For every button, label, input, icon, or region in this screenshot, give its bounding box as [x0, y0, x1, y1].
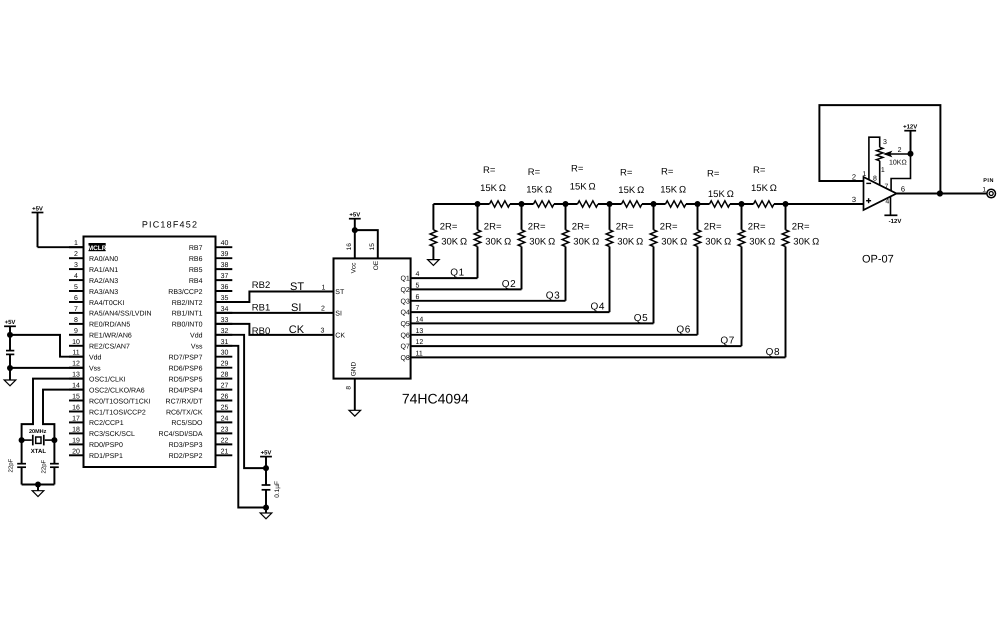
svg-text:RC6/TX/CK: RC6/TX/CK [166, 408, 203, 416]
svg-text:CK: CK [289, 324, 305, 336]
svg-text:30K Ω: 30K Ω [573, 237, 599, 248]
svg-text:RA1/AN1: RA1/AN1 [89, 266, 118, 274]
wire feedback (output to pin2) [819, 105, 940, 193]
svg-text:1: 1 [982, 186, 986, 193]
svg-text:15K Ω: 15K Ω [570, 182, 596, 193]
svg-text:Vss: Vss [89, 366, 101, 373]
svg-text:RB1: RB1 [252, 303, 270, 314]
wire +5V to U1 pin16 Vcc [354, 230, 356, 258]
U2 pin 34 stub and label [216, 312, 233, 314]
power -12V [884, 214, 897, 216]
svg-text:2: 2 [74, 251, 78, 258]
svg-text:2R=: 2R= [704, 222, 722, 233]
svg-text:7: 7 [416, 305, 420, 312]
svg-text:20: 20 [72, 448, 80, 455]
wire U2 pin34 RB1 to U1 SI [216, 312, 334, 314]
svg-text:8: 8 [873, 175, 877, 182]
ground (Vss) [4, 380, 16, 386]
svg-text:18: 18 [72, 426, 80, 433]
svg-text:SI: SI [291, 302, 301, 314]
svg-text:RD1/PSP1: RD1/PSP1 [89, 452, 123, 460]
svg-text:+5V: +5V [261, 449, 272, 456]
U2 pin 29 stub and label [216, 367, 233, 369]
svg-text:26: 26 [221, 394, 229, 401]
wire U2 pin32 Vdd to +5V [216, 335, 267, 468]
svg-text:2: 2 [852, 172, 856, 181]
svg-text:12: 12 [72, 361, 80, 368]
svg-text:2R=: 2R= [792, 222, 810, 233]
svg-text:37: 37 [221, 273, 229, 280]
wire VR1 pin3 to U3 pin1 [869, 137, 880, 179]
svg-text:RB2: RB2 [252, 280, 270, 291]
svg-text:RA2/AN3: RA2/AN3 [89, 277, 118, 285]
svg-text:RB0/INT0: RB0/INT0 [172, 321, 203, 329]
svg-text:SI: SI [335, 311, 342, 318]
IC U2 PIC18F452 body [84, 237, 216, 468]
svg-text:Q5: Q5 [634, 313, 649, 324]
wire +5V to U2 pin1 MCLR [38, 246, 84, 248]
svg-text:19: 19 [72, 437, 80, 444]
junction node Vdd/C4 [263, 465, 269, 471]
ground (C4) [260, 513, 272, 519]
U2 pin 28 stub and label [216, 378, 233, 380]
svg-text:29: 29 [221, 361, 229, 368]
svg-text:7: 7 [74, 306, 78, 313]
resistor R5 15K (series) [666, 201, 687, 207]
svg-text:RE1/WR/AN6: RE1/WR/AN6 [89, 332, 132, 340]
svg-text:2R=: 2R= [440, 222, 458, 233]
svg-text:Q8: Q8 [400, 355, 409, 362]
wire node5 to 2R [653, 204, 655, 230]
junction node ladder 3 [563, 201, 569, 207]
svg-text:Vdd: Vdd [190, 332, 203, 340]
svg-text:31: 31 [221, 339, 229, 346]
svg-text:RD5/PSP5: RD5/PSP5 [169, 375, 203, 383]
svg-text:15: 15 [369, 243, 376, 251]
potentiometer VR1 10K [877, 147, 883, 161]
svg-text:Q7: Q7 [720, 336, 735, 347]
resistor R4 15K (series) [622, 201, 643, 207]
svg-text:30K Ω: 30K Ω [661, 237, 687, 248]
wire to ground [37, 485, 39, 491]
svg-text:-12V: -12V [889, 218, 902, 225]
svg-text:RC7/RX/DT: RC7/RX/DT [166, 397, 204, 405]
svg-text:RD6/PSP6: RD6/PSP6 [169, 365, 203, 373]
svg-text:RD4/PSP4: RD4/PSP4 [169, 386, 203, 394]
wire U1 Q8 to ladder leg [411, 356, 786, 358]
wire 2R to Q7 line [741, 247, 743, 347]
svg-text:0.1µF: 0.1µF [274, 481, 281, 498]
resistor R3 15K (series) [578, 201, 599, 207]
junction node output/feedback [937, 190, 943, 196]
connector PIN (output) [987, 189, 996, 198]
svg-text:13: 13 [416, 328, 424, 335]
wire node3 to 2R [565, 204, 567, 230]
wire U1 Q4 to ladder leg [411, 311, 610, 313]
U2 pin 38 stub and label [216, 268, 233, 270]
U2 pin 35 stub and label [216, 301, 233, 303]
svg-text:ST: ST [290, 281, 304, 293]
U2 pin 26 stub and label [216, 400, 233, 402]
svg-text:21: 21 [221, 448, 229, 455]
svg-text:2R=: 2R= [572, 222, 590, 233]
svg-text:9: 9 [74, 328, 78, 335]
svg-text:11: 11 [72, 350, 79, 357]
svg-text:RD2/PSP2: RD2/PSP2 [169, 452, 203, 460]
wire node2 to 2R [521, 204, 523, 230]
resistor R2R-3 30K [562, 230, 569, 247]
U2 pin 30 stub and label [216, 356, 233, 358]
svg-text:Q3: Q3 [400, 298, 409, 305]
resistor R2R-8 30K [782, 230, 789, 247]
power +5V (U1 Vcc/OE) [349, 218, 361, 220]
junction node ladder 8 [783, 201, 789, 207]
op-amp U3 OP-07 triangle [864, 177, 897, 210]
svg-text:28: 28 [221, 372, 229, 379]
junction node ladder 4 [607, 201, 613, 207]
svg-text:33: 33 [221, 317, 229, 324]
svg-text:Q7: Q7 [400, 344, 409, 351]
svg-text:R=: R= [528, 167, 541, 178]
svg-text:ST: ST [335, 289, 345, 296]
resistor R2R-5 30K [650, 230, 657, 247]
resistor R2R-2 30K [518, 230, 525, 247]
svg-text:12: 12 [416, 339, 424, 346]
svg-text:3: 3 [883, 139, 887, 146]
svg-text:RC3/SCK/SCL: RC3/SCK/SCL [89, 430, 135, 438]
svg-text:2R=: 2R= [748, 222, 766, 233]
svg-text:8: 8 [346, 386, 353, 390]
wire ladder rail segment 7 [730, 203, 754, 205]
U2 pin 36 stub and label [216, 290, 233, 292]
svg-text:15K Ω: 15K Ω [751, 183, 777, 194]
U2 pin 11 stub and label [69, 356, 84, 358]
svg-text:22pF: 22pF [40, 459, 47, 473]
U3 non-inverting input mark [866, 200, 871, 202]
svg-text:MCLR: MCLR [88, 245, 107, 252]
svg-text:RB2/INT2: RB2/INT2 [172, 299, 203, 307]
junction node wiper/+12V [908, 151, 914, 157]
U2 pin 19 stub and label [69, 443, 84, 445]
svg-text:Q6: Q6 [676, 324, 691, 335]
svg-text:RC1/T1OSI/CCP2: RC1/T1OSI/CCP2 [89, 408, 146, 416]
svg-text:36: 36 [221, 284, 229, 291]
svg-text:RA5/AN4/SS/LVDIN: RA5/AN4/SS/LVDIN [89, 310, 152, 318]
svg-text:OSC2/CLKO/RA6: OSC2/CLKO/RA6 [89, 386, 145, 394]
junction node U1 Vcc [352, 227, 358, 233]
junction node XTAL left [19, 437, 25, 443]
svg-text:38: 38 [221, 262, 229, 269]
wire node1 to 2R [477, 204, 479, 230]
svg-text:30K Ω: 30K Ω [749, 237, 775, 248]
crystal X1 20MHz [22, 439, 32, 441]
svg-text:20MHz: 20MHz [29, 429, 47, 435]
wire U2 pin35 RB2 to U1 ST [216, 292, 334, 303]
svg-text:23: 23 [221, 426, 229, 433]
resistor R2R-1 30K [474, 230, 481, 247]
svg-text:R=: R= [620, 168, 633, 179]
capacitor C3 22pF [50, 463, 59, 465]
U2 pin 4 stub and label [69, 279, 84, 281]
svg-text:1: 1 [862, 171, 866, 178]
wire R8 to ground [432, 247, 434, 260]
junction node ladder 6 [695, 201, 701, 207]
junction node XTAL right [51, 437, 57, 443]
svg-text:5: 5 [416, 282, 420, 289]
svg-text:4: 4 [74, 273, 78, 280]
svg-text:14: 14 [416, 316, 424, 323]
svg-text:RA0/AN0: RA0/AN0 [89, 255, 118, 263]
wire 2R to Q4 line [609, 247, 611, 313]
wire U1 Q1 to ladder leg [411, 277, 478, 279]
junction node XTAL gnd [35, 482, 41, 488]
svg-text:40: 40 [221, 240, 229, 247]
U2 pin 5 stub and label [69, 290, 84, 292]
svg-text:RC2/CCP1: RC2/CCP1 [89, 419, 124, 427]
wire U1 Q6 to ladder leg [411, 334, 698, 336]
U2 pin 12 stub and label [69, 367, 84, 369]
svg-text:5: 5 [74, 284, 78, 291]
svg-text:CK: CK [335, 333, 345, 340]
junction node C4 gnd [263, 505, 269, 511]
svg-text:3: 3 [321, 328, 325, 335]
junction node ladder 5 [651, 201, 657, 207]
U2 pin 2 stub and label [69, 257, 84, 259]
svg-text:13: 13 [72, 372, 80, 379]
wire U1 Q2 to ladder leg [411, 288, 522, 290]
svg-text:11: 11 [416, 350, 423, 357]
svg-text:2: 2 [321, 306, 325, 313]
U2 pin 32 stub and label [216, 334, 233, 336]
svg-text:RB5: RB5 [189, 267, 203, 274]
wire ladder rail segment 6 [686, 203, 710, 205]
wire 2R to Q5 line [653, 247, 655, 324]
svg-text:15K Ω: 15K Ω [526, 185, 552, 196]
wire node6 to 2R [697, 204, 699, 230]
wire U2 pin31 Vss to ground [216, 346, 267, 508]
svg-text:34: 34 [221, 306, 229, 313]
svg-text:OE: OE [373, 260, 380, 270]
svg-text:R=: R= [483, 165, 496, 176]
svg-text:30K Ω: 30K Ω [617, 237, 643, 248]
svg-text:7: 7 [885, 184, 889, 191]
U2 pin 23 stub and label [216, 432, 233, 434]
svg-text:Q8: Q8 [766, 347, 781, 358]
U2 pin 1 label MCLR (inverted) [89, 243, 106, 251]
capacitor C4 0.1uF [262, 484, 271, 486]
wire ladder rail segment 4 [598, 203, 622, 205]
wire +5V to U1 pin15 OE [355, 230, 378, 258]
resistor R1 15K (series) [490, 201, 510, 207]
svg-text:22pF: 22pF [7, 458, 14, 472]
power +5V (MCLR pullup) [32, 212, 44, 214]
junction node ladder 2 [519, 201, 525, 207]
U2 pin 40 stub and label [216, 246, 233, 248]
svg-text:25: 25 [221, 405, 229, 412]
svg-text:1: 1 [881, 167, 885, 174]
wire node7 to 2R [741, 204, 743, 230]
U2 pin 37 stub and label [216, 279, 233, 281]
svg-text:+5V: +5V [349, 212, 360, 219]
wire U1 Q7 to ladder leg [411, 345, 742, 347]
wire U2 pin14 OSC2 to crystal [43, 390, 84, 441]
svg-text:Q6: Q6 [400, 332, 409, 339]
svg-text:8: 8 [74, 317, 78, 324]
svg-text:2: 2 [898, 147, 902, 154]
U2 pin 24 stub and label [216, 421, 233, 423]
junction node +5V/Vdd [7, 332, 13, 338]
svg-text:6: 6 [416, 294, 420, 301]
svg-text:1: 1 [74, 240, 78, 247]
svg-text:XTAL: XTAL [31, 448, 47, 455]
capacitor C1 (decoupling) [6, 350, 14, 352]
resistor R8 30K (2R terminator) [430, 230, 437, 247]
svg-text:22: 22 [221, 437, 229, 444]
svg-text:RD7/PSP7: RD7/PSP7 [169, 354, 203, 362]
U2 pin 15 stub and label [69, 400, 84, 402]
svg-text:74HC4094: 74HC4094 [402, 390, 469, 406]
U2 pin 3 stub and label [69, 268, 84, 270]
svg-text:Vcc: Vcc [351, 262, 358, 274]
wire ladder rail segment 3 [554, 203, 578, 205]
power +12V [904, 130, 916, 132]
svg-text:PIN: PIN [983, 178, 994, 184]
resistor R2R-4 30K [606, 230, 613, 247]
svg-text:16: 16 [72, 405, 80, 412]
svg-text:Q4: Q4 [400, 310, 409, 317]
svg-text:10KΩ: 10KΩ [889, 160, 907, 167]
svg-text:OP-07: OP-07 [862, 254, 894, 266]
wire ladder rail segment 8 [774, 203, 864, 205]
resistor R6 15K (series) [710, 201, 731, 207]
wire U1 Q5 to ladder leg [411, 322, 654, 324]
junction node ladder 7 [739, 201, 745, 207]
wire U2 pin33 RB0 to U1 CK [216, 324, 334, 335]
U3 inverting input mark [866, 182, 871, 184]
svg-text:RB4: RB4 [189, 278, 203, 285]
svg-text:RD0/PSP0: RD0/PSP0 [89, 441, 123, 449]
U2 pin 17 stub and label [69, 421, 84, 423]
svg-text:15: 15 [72, 394, 80, 401]
U2 pin 20 stub and label [69, 454, 84, 456]
svg-text:RE2/CS/AN7: RE2/CS/AN7 [89, 343, 130, 351]
svg-text:30K Ω: 30K Ω [529, 237, 555, 248]
power +5V (U2 Vdd pin32) [260, 456, 272, 458]
svg-text:+5V: +5V [5, 319, 16, 326]
ground (ladder) [428, 260, 440, 266]
svg-text:15K Ω: 15K Ω [480, 183, 506, 194]
svg-text:R=: R= [661, 167, 674, 178]
svg-text:15K Ω: 15K Ω [618, 185, 644, 196]
power +5V (Vdd rail) [4, 325, 16, 327]
svg-text:RB0: RB0 [252, 326, 270, 337]
U2 pin 22 stub and label [216, 443, 233, 445]
svg-text:2R=: 2R= [484, 222, 502, 233]
U2 pin 1 stub and label [69, 246, 84, 248]
svg-text:27: 27 [221, 383, 229, 390]
U2 pin 25 stub and label [216, 411, 233, 413]
U2 pin 31 stub and label [216, 345, 233, 347]
svg-text:Q4: Q4 [591, 302, 606, 313]
svg-text:4: 4 [885, 199, 889, 206]
junction node Vss [7, 365, 13, 371]
svg-text:4: 4 [416, 271, 420, 278]
svg-text:R=: R= [571, 164, 584, 175]
svg-text:30: 30 [221, 350, 229, 357]
U2 pin 9 stub and label [69, 334, 84, 336]
svg-text:16: 16 [346, 243, 353, 251]
wire node4 to 2R [609, 204, 611, 230]
wire U3 pin4 to -12V [890, 197, 892, 215]
capacitor C2 22pF [17, 463, 26, 465]
wire Vss to U2 pin12 [10, 367, 84, 369]
svg-text:6: 6 [74, 295, 78, 302]
resistor R7 15K (series) [754, 201, 775, 207]
svg-text:Q3: Q3 [546, 290, 561, 301]
U2 pin 14 stub and label [69, 389, 84, 391]
svg-text:RC5/SDO: RC5/SDO [171, 419, 203, 427]
wire 2R to Q6 line [697, 247, 699, 335]
ground (XTAL) [32, 491, 44, 497]
wire +12V to U3 pin7 [891, 154, 910, 191]
U2 pin 39 stub and label [216, 257, 233, 259]
svg-text:35: 35 [221, 295, 229, 302]
VR1 wiper arrow [885, 152, 892, 157]
IC U1 74HC4094 body [334, 258, 411, 378]
wire 2R to Q2 line [521, 247, 523, 290]
wire node8 to 2R [785, 204, 787, 230]
wire 2R to Q8 line [785, 247, 787, 358]
svg-text:OSC1/CLKI: OSC1/CLKI [89, 375, 126, 383]
wire crystal caps to ground [22, 484, 55, 486]
wire VR1 pin1 to U3 pin8 [879, 161, 881, 185]
U2 pin 13 stub and label [69, 378, 84, 380]
wire ladder gnd leg [432, 204, 434, 230]
U2 pin 6 stub and label [69, 301, 84, 303]
svg-text:RA3/AN3: RA3/AN3 [89, 288, 118, 296]
svg-text:Q2: Q2 [502, 279, 517, 290]
svg-text:RB3/CCP2: RB3/CCP2 [168, 288, 202, 296]
U2 pin 16 stub and label [69, 411, 84, 413]
svg-text:Q1: Q1 [450, 268, 465, 279]
svg-text:2R=: 2R= [616, 222, 634, 233]
wire U1 pin8 GND to ground [354, 379, 356, 411]
svg-text:14: 14 [72, 383, 80, 390]
svg-text:30K Ω: 30K Ω [485, 237, 511, 248]
svg-text:24: 24 [221, 415, 229, 422]
svg-text:3: 3 [74, 262, 78, 269]
svg-text:15K Ω: 15K Ω [708, 189, 734, 200]
svg-text:RC0/T1OSO/T1CKI: RC0/T1OSO/T1CKI [89, 397, 151, 405]
wire +5V to U2 pin11 Vdd [10, 335, 84, 357]
resistor R2R-7 30K [738, 230, 745, 247]
wire Vss to ground [9, 368, 11, 380]
svg-text:10: 10 [72, 339, 80, 346]
resistor R2 15K (series) [534, 201, 555, 207]
svg-text:Q1: Q1 [400, 276, 409, 283]
svg-text:PIC18F452: PIC18F452 [142, 220, 198, 230]
wire 2R to Q1 line [477, 247, 479, 279]
svg-text:RB6: RB6 [189, 256, 203, 263]
svg-text:2R=: 2R= [660, 222, 678, 233]
U2 pin 18 stub and label [69, 432, 84, 434]
svg-text:+12V: +12V [903, 124, 917, 131]
svg-text:6: 6 [901, 185, 905, 194]
svg-text:30K Ω: 30K Ω [705, 237, 731, 248]
svg-text:RC4/SDI/SDA: RC4/SDI/SDA [159, 430, 203, 438]
junction node ladder 1 [475, 201, 481, 207]
svg-text:2R=: 2R= [528, 222, 546, 233]
